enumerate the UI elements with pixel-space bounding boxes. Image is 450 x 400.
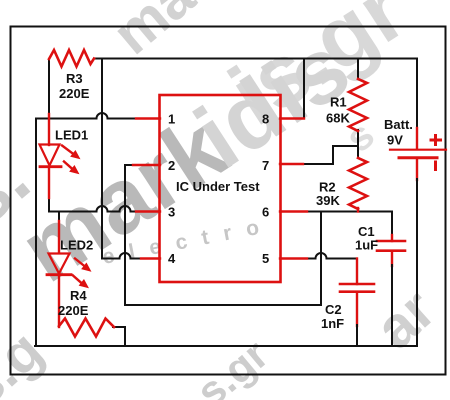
pin 4 stub [141,257,160,259]
resistor R1 [349,79,367,131]
wire C1 top lead [391,235,393,241]
wire battery negative lead [416,158,418,180]
wire C1 bottom lead [391,251,393,266]
svg-text:C2: C2 [325,302,342,317]
svg-text:R4: R4 [70,288,87,303]
wire R4 output lead [113,327,125,346]
wire node B vertical [124,165,126,305]
wire left ground rail [35,119,37,347]
pin 6 stub [280,210,307,212]
svg-text:7: 7 [262,158,269,173]
pin 7 stub [280,163,303,165]
LED1 [40,145,80,174]
wire pin 8 riser [303,59,305,119]
wire battery positive lead [416,59,418,130]
svg-text:1: 1 [168,112,175,127]
pin 8 stub [280,117,304,119]
wire top rail [94,58,417,60]
wire R1-R2 junction column [357,130,359,158]
svg-text:IC Under Test: IC Under Test [176,179,260,194]
wire LED2 cathode lead [58,274,60,327]
wire C2 bottom lead [356,292,358,326]
svg-text:8: 8 [262,112,269,127]
svg-text:1nF: 1nF [321,316,344,331]
IC U1 box [160,95,281,282]
wire pin 6 riser [320,212,322,306]
svg-text:39K: 39K [316,193,340,208]
wire pin 5 run [306,253,357,259]
svg-text:220E: 220E [59,86,90,101]
svg-text:Batt.: Batt. [384,117,413,132]
pin 5 stub [280,257,307,259]
svg-text:68K: 68K [326,111,350,126]
wire LED2 anode tap [58,212,60,223]
svg-text:6: 6 [262,205,269,220]
LED2 [47,254,91,288]
wire node A vertical [101,59,103,259]
svg-text:1uF: 1uF [355,238,378,253]
wire R1 top lead [357,59,359,80]
resistor R3 [49,50,94,67]
svg-text:LED2: LED2 [60,238,93,253]
wire pin 1 run [36,113,137,118]
wire pin 3 run [49,197,137,212]
pin 2 stub [133,164,160,166]
svg-text:R1: R1 [330,95,347,110]
resistor R4 [59,319,114,337]
pin 3 stub [136,210,160,212]
wire LED1 cathode lead [48,167,50,198]
svg-text:LED1: LED1 [55,128,88,143]
svg-text:2: 2 [168,158,175,173]
svg-text:9V: 9V [387,133,403,148]
pin 1 stub [136,117,160,119]
wire pin 7 run [302,146,357,164]
wire R2 bottom lead [357,208,359,212]
battery BT1 [390,136,446,170]
wire bottom ground rail [35,345,417,347]
resistor R2 [349,158,367,209]
svg-text:3: 3 [168,205,175,220]
svg-text:5: 5 [262,251,269,266]
wire pin 4 run [102,253,141,259]
wire bottom link node B to pin6 riser [125,304,321,306]
wire C2 top lead [356,259,358,285]
capacitor C2 [340,284,374,292]
wire pin 2 run [125,164,134,166]
capacitor C1 [377,241,405,251]
svg-text:4: 4 [168,251,176,266]
svg-text:R3: R3 [66,71,83,86]
wire R3 left lead [48,59,50,115]
svg-text:220E: 220E [58,303,89,318]
wire pin 6 run [306,212,392,237]
